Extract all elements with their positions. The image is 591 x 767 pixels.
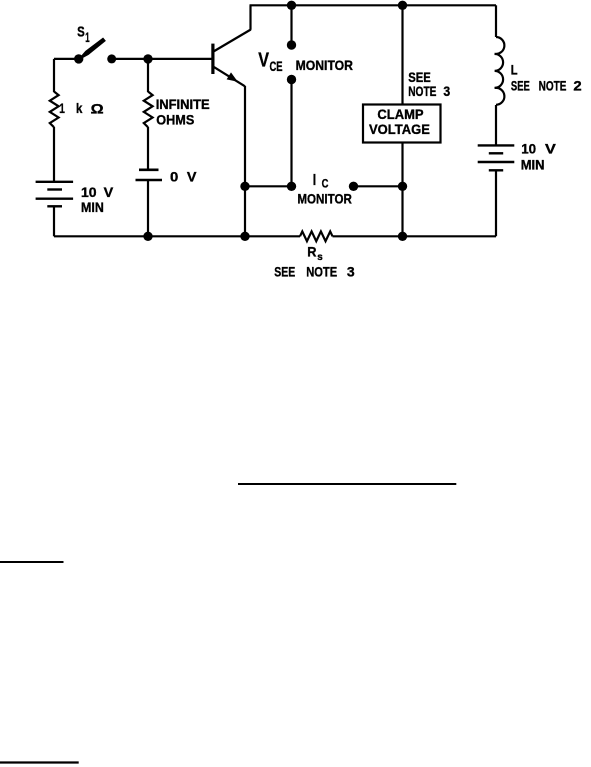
svg-text:MONITOR: MONITOR	[296, 58, 353, 73]
svg-text:I: I	[313, 172, 316, 189]
wire bottom rail left	[54, 235, 300, 237]
node bottom clamp junction dot	[398, 232, 407, 241]
wire collector riser	[249, 5, 251, 30]
svg-text:1: 1	[59, 101, 65, 116]
svg-text:1: 1	[85, 30, 90, 45]
svg-text:INFINITE: INFINITE	[156, 97, 210, 112]
svg-text:CE: CE	[270, 59, 283, 74]
wire left branch upper	[53, 59, 55, 92]
svg-text:NOTE: NOTE	[306, 265, 337, 280]
svg-text:10: 10	[521, 142, 536, 157]
wire switch left	[54, 58, 79, 60]
transistor Q1 base bar	[211, 44, 214, 74]
svg-text:MONITOR: MONITOR	[297, 191, 352, 206]
svg-text:V: V	[545, 141, 557, 156]
svg-text:V: V	[258, 50, 269, 72]
node emitter/IC junction dot	[240, 182, 249, 191]
rule bottom left	[0, 761, 79, 763]
svg-text:SEE: SEE	[274, 265, 295, 280]
wire inductor to battery	[495, 105, 497, 145]
rule left margin	[0, 561, 64, 563]
switch S1 throw dot	[107, 54, 116, 63]
svg-text:C: C	[322, 177, 329, 191]
svg-text:S: S	[77, 25, 85, 41]
svg-text:SEE: SEE	[408, 70, 431, 85]
wire top rail	[250, 4, 497, 6]
svg-text:3: 3	[443, 84, 450, 99]
transistor Q1 collector lead	[214, 30, 251, 52]
IC monitor terminal left dot	[287, 182, 296, 191]
svg-text:V: V	[104, 185, 114, 200]
node top rail / VCE dot	[287, 1, 296, 10]
svg-text:NOTE: NOTE	[539, 79, 567, 94]
IC monitor terminal right dot	[349, 182, 358, 191]
wire infinite branch upper	[147, 59, 149, 92]
transistor Q1 emitter lead	[214, 67, 245, 86]
svg-text:R: R	[307, 244, 316, 259]
wire clamp upper	[401, 5, 403, 104]
switch S1 pole dot	[74, 54, 83, 63]
svg-text:0: 0	[170, 170, 179, 185]
svg-text:MIN: MIN	[81, 200, 104, 215]
clamp voltage box	[363, 105, 441, 143]
wire VCE upper	[290, 5, 292, 45]
svg-text:s: s	[317, 251, 323, 263]
svg-text:V: V	[187, 169, 197, 184]
svg-text:Ω: Ω	[91, 101, 104, 116]
node top rail / clamp dot	[398, 1, 407, 10]
switch S1 lever	[79, 38, 106, 60]
wire right rail to bottom	[495, 170, 497, 236]
wire VCE lower	[290, 80, 292, 187]
svg-text:SEE: SEE	[511, 79, 530, 94]
svg-text:MIN: MIN	[521, 158, 545, 173]
wire right rail down to inductor	[495, 5, 497, 37]
svg-text:k: k	[76, 101, 83, 116]
VCE monitor terminal lower dot	[287, 75, 296, 84]
capacitor C1 plates	[139, 169, 159, 172]
battery B1 plates	[36, 181, 74, 183]
svg-text:CLAMP: CLAMP	[377, 107, 423, 122]
svg-text:3: 3	[347, 265, 355, 280]
rule center	[238, 483, 456, 485]
transistor Q1 emitter arrow	[227, 72, 238, 81]
node A junction dot	[143, 54, 152, 63]
resistor infinite ohms zigzag	[144, 92, 153, 128]
wire base	[148, 58, 212, 60]
svg-text:L: L	[511, 62, 518, 77]
svg-text:10: 10	[81, 185, 97, 200]
battery B2 plates	[478, 144, 515, 146]
node bottom emitter junction dot	[240, 232, 249, 241]
node clamp/IC junction dot	[398, 182, 407, 191]
svg-text:VOLTAGE: VOLTAGE	[369, 122, 430, 137]
wire switch to node A	[112, 58, 148, 60]
wire capacitor to bottom rail	[147, 181, 149, 236]
resistor R 1k zigzag	[50, 92, 59, 128]
resistor Rs zigzag	[300, 231, 333, 241]
wire emitter to bottom rail	[244, 186, 246, 236]
svg-text:2: 2	[573, 79, 582, 94]
wire battery to bottom rail	[53, 206, 55, 236]
wire clamp lower	[401, 143, 403, 237]
wire bottom rail right	[333, 235, 497, 237]
wire to capacitor	[147, 127, 149, 169]
svg-text:NOTE: NOTE	[408, 84, 436, 99]
svg-text:OHMS: OHMS	[156, 113, 194, 128]
node bottom-capacitor junction dot	[143, 232, 152, 241]
wire IC monitor left segment	[245, 185, 292, 187]
wire IC monitor right segment	[354, 185, 403, 187]
inductor L coil	[495, 37, 505, 105]
wire emitter vertical	[244, 86, 246, 186]
VCE monitor terminal upper dot	[287, 40, 296, 49]
wire resistor to battery	[53, 127, 55, 182]
